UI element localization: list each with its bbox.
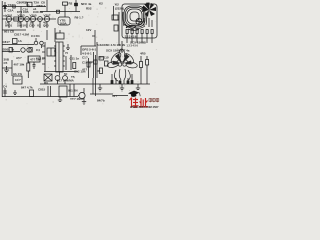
- wire drop: [46, 0, 48, 12]
- pin 1: [126, 30, 128, 39]
- OPS box: [81, 46, 96, 55]
- wire vertical x12: [11, 60, 13, 76]
- component K2 box: [112, 15, 119, 20]
- deflection yoke fan legs: [111, 74, 133, 84]
- svg-text:SC: SC: [64, 73, 68, 76]
- wire y96 right: [113, 95, 128, 97]
- IC N806: [58, 12, 70, 26]
- svg-text:Q80: Q80: [43, 24, 49, 28]
- transistor V810: [78, 88, 85, 100]
- wire vertical x93: [92, 78, 94, 94]
- svg-text:R9 1.?: R9 1.?: [75, 16, 84, 20]
- svg-text:C30 4B: C30 4B: [33, 10, 44, 14]
- svg-text:C81? 4.5M: C81? 4.5M: [14, 33, 29, 37]
- ground G1: [4, 66, 9, 73]
- svg-text:V2: V2: [24, 24, 28, 28]
- wire fan stem: [121, 44, 123, 53]
- svg-text:160A: 160A: [60, 22, 68, 26]
- ground G5: [136, 84, 140, 90]
- transistor V207: [44, 16, 49, 28]
- wire drop: [20, 7, 22, 20]
- resistor R805: [9, 48, 12, 53]
- box with X B801: [44, 74, 52, 81]
- wire x88: [87, 58, 90, 78]
- resistor R802: [63, 2, 68, 12]
- svg-text:R9: R9: [44, 81, 48, 85]
- svg-text:847 4.7k: 847 4.7k: [21, 86, 33, 90]
- resistor R806: [29, 48, 32, 53]
- svg-text:9A 1%: 9A 1%: [13, 72, 22, 76]
- svg-text:K2: K2: [99, 2, 103, 6]
- wire y68: [2, 67, 12, 69]
- svg-text:84/7b: 84/7b: [97, 99, 105, 103]
- capacitor C801: [28, 2, 33, 7]
- svg-text:1 2 3 4 5 6: 1 2 3 4 5 6: [127, 45, 139, 48]
- diode VD1: [4, 2, 7, 12]
- core star: [142, 3, 157, 18]
- wire bus y84 left: [40, 83, 95, 85]
- svg-text:C815: C815: [38, 88, 46, 92]
- resistor R830: [30, 90, 34, 97]
- svg-text:1 2 3 4 5 6: 1 2 3 4 5 6: [125, 36, 137, 39]
- IC N803: [28, 56, 40, 62]
- capacitor C803: [75, 0, 78, 12]
- transistor V221: [21, 48, 25, 52]
- transistor V201: [6, 16, 11, 28]
- svg-text:05: 05: [97, 69, 101, 73]
- svg-text:817 1N: 817 1N: [36, 57, 46, 61]
- svg-text:C11 1n: C11 1n: [70, 57, 80, 61]
- pin 2: [131, 30, 133, 39]
- wire x95 mid: [92, 30, 95, 46]
- IC N801: [13, 39, 18, 44]
- svg-text:NFC 4a: NFC 4a: [81, 2, 92, 6]
- resistor R820: [140, 56, 143, 84]
- svg-text:C81?: C81?: [3, 40, 11, 44]
- capacitor C830: [3, 88, 7, 97]
- wire vertical x58: [59, 72, 61, 76]
- wire vertical x71: [70, 55, 72, 70]
- svg-text:817 17N/MA: 817 17N/MA: [57, 79, 75, 83]
- resistor R825: [100, 68, 103, 74]
- svg-text:(232B): (232B): [115, 7, 124, 11]
- wire vertical x95: [95, 55, 97, 96]
- IC N804: [13, 76, 22, 84]
- transistor V209: [34, 38, 38, 45]
- transformer T801 windings: [123, 6, 152, 30]
- IC N802 shaded: [47, 48, 55, 56]
- ground G7: [58, 97, 62, 102]
- capacitor C823: [105, 61, 109, 66]
- resistor R821: [146, 56, 149, 84]
- transistor V211: [40, 41, 44, 48]
- wire transistor row bus: [2, 18, 56, 20]
- svg-text:8R01: 8R01: [5, 24, 13, 28]
- svg-text:911 2N: 911 2N: [68, 89, 78, 93]
- wire x66: [65, 56, 67, 70]
- svg-text:B+ 110: B+ 110: [99, 56, 109, 60]
- deflection yoke flower petals: [107, 49, 138, 81]
- svg-text:S801: S801: [17, 24, 24, 28]
- wire bus y84: [95, 83, 150, 85]
- relay K801: [59, 86, 67, 97]
- svg-text:YT? 1N0A: YT? 1N0A: [70, 97, 85, 101]
- transistor V215: [38, 17, 43, 28]
- wire bottom bus: [2, 96, 78, 98]
- pin 4: [141, 30, 143, 39]
- wire fan stem upper: [121, 41, 123, 44]
- pin 3: [136, 30, 138, 39]
- wire vertical: [118, 12, 120, 46]
- wire y71 mid: [44, 71, 78, 73]
- wire vertical x55: [54, 28, 56, 42]
- ground G4: [120, 84, 124, 91]
- wire bus y46: [2, 44, 34, 46]
- wire drop K2: [113, 6, 115, 20]
- transistor V203: [18, 16, 23, 28]
- capacitor C806: [33, 62, 36, 69]
- svg-text:V207: V207: [44, 14, 51, 18]
- wire top bus: [2, 6, 46, 8]
- svg-text:12V: 12V: [86, 28, 91, 32]
- svg-text:V201: V201: [6, 14, 13, 18]
- capacitor C802 tick: [13, 5, 15, 8]
- wire x93 upper: [90, 52, 94, 78]
- svg-text:C4: C4: [3, 85, 7, 89]
- svg-text:8?0 C85: 8?0 C85: [17, 10, 29, 14]
- capacitor C831: [48, 86, 51, 97]
- resistor R808: [73, 63, 76, 69]
- ground G3: [98, 84, 102, 91]
- capacitor C822: [99, 57, 104, 61]
- node circle: [136, 18, 142, 24]
- svg-text:R52: R52: [86, 7, 92, 11]
- svg-text:4R5: 4R5: [140, 52, 146, 56]
- watermark small characters: [149, 98, 159, 102]
- svg-text:1n: 1n: [26, 3, 30, 7]
- node J1: [57, 10, 60, 13]
- svg-text:V203: V203: [18, 14, 25, 18]
- transistor V205: [30, 16, 35, 28]
- svg-text:C4 R4: C4 R4: [31, 34, 40, 38]
- pin 6: [151, 30, 153, 39]
- transistor V213: [25, 17, 30, 28]
- wire bus y30: [2, 29, 26, 31]
- transistor V219: [63, 76, 68, 84]
- wire verticals: [70, 84, 74, 97]
- wire drops row2: [47, 30, 60, 40]
- ground G8: [82, 100, 86, 104]
- wire left border: [1, 1, 3, 97]
- wire pin drops: [127, 38, 152, 43]
- svg-text:5.6A6/8C 4.5t 1W 2k: 5.6A6/8C 4.5t 1W 2k: [97, 43, 126, 47]
- svg-text:SB01 7k: SB01 7k: [3, 48, 15, 52]
- svg-text:Y2A: Y2A: [8, 3, 15, 7]
- yoke hub: [118, 63, 126, 66]
- svg-text:41?: 41?: [82, 68, 87, 72]
- wire y94 right: [90, 93, 113, 95]
- wire bus y52: [2, 51, 20, 53]
- svg-text:407 19k: 407 19k: [14, 63, 25, 67]
- svg-text:51?: 51?: [112, 94, 117, 98]
- watermark cap icon: [128, 91, 140, 97]
- svg-text:V205: V205: [30, 14, 37, 18]
- svg-text:WWW.JDZJ.COM 4567: WWW.JDZJ.COM 4567: [130, 105, 159, 109]
- IC N805 tall: [54, 42, 65, 72]
- wire vertical x45 with pins: [42, 42, 45, 72]
- transistor V222: [27, 48, 31, 52]
- svg-text:C1?: C1?: [82, 56, 88, 60]
- svg-text:V2: V2: [37, 24, 41, 28]
- wire bus2: [40, 11, 80, 13]
- scan noise: [5, 1, 157, 104]
- svg-text:C5: C5: [4, 61, 8, 65]
- ground G6: [13, 90, 17, 95]
- svg-text:C8: C8: [41, 1, 45, 5]
- capacitor C820: [94, 60, 97, 64]
- capacitor C840: [114, 25, 118, 31]
- transistor V217: [55, 76, 60, 84]
- svg-text:C80: C80: [29, 24, 35, 28]
- transformer T801 box: [122, 4, 157, 38]
- pin 5: [146, 30, 148, 39]
- wire vertical x97: [96, 42, 98, 78]
- watermark big red characters: [130, 98, 149, 108]
- resistor R807: [27, 56, 30, 78]
- ground G2: [66, 44, 70, 49]
- petal shading: [113, 54, 132, 65]
- box B5: [56, 33, 64, 39]
- resistor R201: [14, 17, 19, 21]
